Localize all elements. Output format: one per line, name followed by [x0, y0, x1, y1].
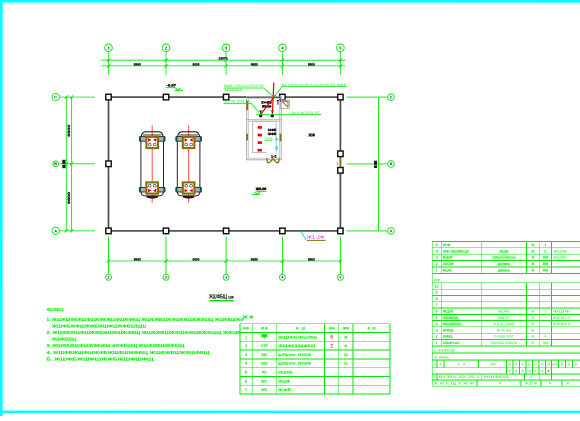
svg-text:5840: 5840 — [134, 62, 141, 66]
svg-text:φ20mm JDGФ: φ20mm JDGФ — [278, 353, 311, 357]
svg-text:ЖШФБ: ЖШФБ — [498, 309, 510, 313]
svg-text:5840: 5840 — [134, 258, 141, 262]
svg-text:ЖФ: ЖФ — [542, 262, 548, 266]
svg-text:ЖФ: ЖФ — [433, 278, 440, 282]
svg-text:ЖШФБЖШФБЩ: ЖШФБЖШФБЩ — [278, 344, 316, 348]
svg-text:1: 1 — [436, 341, 438, 345]
svg-text:2: 2 — [165, 276, 167, 280]
svg-text:Ш: Ш — [344, 362, 347, 366]
svg-text:Ш: Ш — [344, 353, 347, 357]
svg-text:Ж: Ж — [547, 362, 550, 366]
svg-text:Ж: Ж — [508, 362, 511, 366]
svg-text:7: 7 — [245, 388, 247, 392]
svg-text:4: 4 — [281, 276, 283, 280]
svg-text:6: 6 — [245, 379, 247, 383]
svg-text:6600: 6600 — [67, 124, 71, 136]
svg-text:3: 3 — [436, 256, 438, 260]
svg-text:3: 3 — [436, 328, 438, 332]
svg-text:Ж: Ж — [508, 369, 511, 373]
svg-text:ЖФ: ЖФ — [542, 269, 548, 273]
svg-text:ЖФ: ЖФ — [308, 132, 316, 137]
svg-text:6000: 6000 — [193, 62, 200, 66]
svg-text:WC: WC — [261, 379, 267, 383]
svg-text:Ф 6.5/7.5ЖШ: Ф 6.5/7.5ЖШ — [493, 322, 514, 326]
svg-text:1:100: 1:100 — [228, 295, 233, 299]
svg-text:φ65mm: φ65mm — [498, 269, 510, 273]
svg-text:5650: 5650 — [251, 258, 258, 262]
svg-text:100mm×50mm: 100mm×50mm — [492, 256, 516, 260]
svg-text:ЖФ: ЖФ — [542, 256, 548, 260]
svg-text:φ25mm: φ25mm — [498, 262, 510, 266]
svg-text:ЖШФ: ЖШФ — [442, 309, 453, 313]
svg-text:Ф: Ф — [549, 381, 552, 385]
svg-text:ЖШФБЩХ: ЖШФБЩХ — [442, 322, 462, 326]
svg-text:ЖШФБ: ЖШФБ — [553, 256, 568, 260]
svg-text:ЖФ:Ж0.3: ЖФ:Ж0.3 — [553, 322, 570, 326]
svg-text:5800: 5800 — [308, 62, 315, 66]
svg-text:7: 7 — [436, 303, 438, 307]
svg-text:B: B — [390, 162, 393, 166]
svg-text:5800: 5800 — [308, 258, 315, 262]
svg-text:A: A — [390, 229, 393, 233]
svg-text:JDGФ: JDGФ — [442, 262, 453, 266]
svg-text:Ж: Ж — [547, 369, 550, 373]
svg-text:ЖФ:Ж1.3: ЖФ:Ж1.3 — [553, 316, 570, 320]
svg-text:ЖШФБЩ:: ЖШФБЩ: — [46, 307, 64, 312]
svg-text:ЖФБ: ЖФБ — [278, 388, 292, 392]
svg-text:Ж0.00: Ж0.00 — [255, 187, 267, 191]
svg-text:ЖШФХАЗ: ЖШФХАЗ — [442, 341, 459, 345]
svg-text:4: 4 — [436, 322, 438, 326]
svg-text:23070: 23070 — [218, 56, 228, 60]
svg-text:9. ЖФЩ: 9. ЖФЩ — [434, 356, 449, 360]
svg-text:ЖШ Ф: ЖШ Ф — [524, 381, 538, 385]
svg-text:S20: S20 — [261, 353, 268, 357]
svg-text:6600: 6600 — [67, 192, 71, 204]
svg-text:4: 4 — [436, 249, 438, 253]
svg-text:6000: 6000 — [193, 258, 200, 262]
svg-text:ЖФ: ЖФ — [552, 362, 559, 366]
svg-text:2: 2 — [245, 344, 247, 348]
svg-text:8. ЖШФБЩХ: 8. ЖШФБЩХ — [433, 348, 456, 352]
svg-text:Ж: Ж — [541, 369, 544, 373]
svg-text:ЖФШ: ЖФШ — [442, 335, 452, 339]
svg-text:600×500 2000/Ж: 600×500 2000/Ж — [491, 341, 518, 345]
svg-text:A: A — [54, 228, 57, 233]
svg-text:ЖШФБШЩ: ЖШФБШЩ — [52, 337, 76, 342]
svg-text:ФШФ: ФШФ — [553, 309, 571, 313]
svg-text:5: 5 — [436, 316, 438, 320]
svg-text:1: 1 — [107, 276, 109, 280]
svg-text:Ф: Ф — [532, 262, 535, 266]
svg-text:Ф Ш: Ф Ш — [296, 327, 305, 331]
svg-text:1. ЖШЖШФБЖШФШЖФБЖШФШЖФБЩ ЖШФЖБ: 1. ЖШЖШФБЖШФШЖФБЖШФШЖФБЩ ЖШФЖБШЖФШФЖШБЖФ… — [46, 317, 244, 322]
svg-text:2: 2 — [330, 344, 333, 350]
svg-text:Щ: Щ — [528, 369, 531, 373]
svg-text:1: 1 — [434, 375, 436, 379]
svg-text:1: 1 — [544, 243, 546, 247]
svg-text:ЖШФБЩ: ЖШФБЩ — [208, 293, 227, 300]
svg-text:ФШФ: ФШФ — [442, 269, 451, 273]
svg-text:5: 5 — [339, 276, 341, 280]
svg-text:WS: WS — [261, 388, 267, 392]
svg-text:2×36Ш 220Г: 2×36Ш 220Г — [494, 335, 514, 339]
svg-text:10: 10 — [435, 284, 439, 288]
svg-text:1-2: 1-2 — [271, 154, 277, 158]
svg-text:ЖФ: ЖФ — [243, 327, 249, 331]
svg-text:ФШФ: ФШФ — [442, 256, 452, 260]
svg-text:Ф: Ф — [345, 344, 348, 348]
svg-text:Ж Ф: Ж Ф — [261, 327, 268, 331]
svg-text:ЖШФ: ЖШФ — [553, 249, 568, 253]
svg-text:φ25mm JDGФ: φ25mm JDGФ — [278, 362, 311, 366]
svg-text:1: 1 — [245, 335, 247, 339]
svg-text:B: B — [54, 161, 57, 166]
svg-text:5: 5 — [330, 335, 333, 341]
svg-text:5650: 5650 — [251, 62, 258, 66]
svg-text:Ф: Ф — [532, 269, 535, 273]
svg-text:PC: PC — [262, 370, 267, 374]
svg-text:Ф500ШШ: Ф500ШШ — [224, 88, 242, 92]
svg-text:ЖШФ: ЖШФ — [278, 379, 290, 383]
svg-text:ЖШФБЩ: ЖШФБЩ — [442, 316, 459, 320]
svg-text:ЖФ: ЖФ — [329, 327, 335, 331]
svg-text:Ж Ф: Ж Ф — [457, 362, 466, 366]
svg-text:Ф Ш: Ф Ш — [367, 327, 375, 331]
svg-text:UTP: UTP — [261, 344, 269, 348]
svg-text:5. ЖШФБЖШФШЖФБЖШФШФЩ: 5. ЖШФБЖШФШЖФБЖШФШФЩ — [46, 356, 153, 361]
svg-text:C: C — [54, 94, 57, 99]
svg-text:2: 2 — [436, 262, 438, 266]
svg-text:2: 2 — [436, 335, 438, 339]
svg-text:9: 9 — [436, 291, 438, 295]
svg-text:86Ф 5Г: 86Ф 5Г — [498, 316, 509, 320]
svg-text:Б: Б — [522, 369, 524, 373]
svg-text:Ж1-2Ф: Ж1-2Ф — [307, 235, 325, 240]
svg-text:3: 3 — [245, 353, 247, 357]
svg-text:ЖФ: ЖФ — [490, 362, 496, 366]
svg-text:ЖШФБЩ: ЖШФБЩ — [483, 375, 510, 379]
svg-text:1: 1 — [436, 269, 438, 273]
svg-text:30-40 5Ш: 30-40 5Ш — [496, 328, 511, 332]
svg-text:Ф: Ф — [499, 381, 502, 385]
svg-text:ЖФ: ЖФ — [343, 327, 349, 331]
svg-text:BV35A-20/-25-1: BV35A-20/-25-1 — [438, 375, 479, 379]
svg-text:ЖФШ: ЖФШ — [442, 328, 453, 332]
svg-text:2. ЖШФБЖШФШЖФБЖШФШЖФБЩ ЖШФЖБШЖ: 2. ЖШФБЖШФШЖФБЖШФШЖФБЩ ЖШФЖБШЖФШФЖШБЖФШЩ… — [46, 330, 241, 335]
svg-text:4: 4 — [245, 362, 247, 366]
svg-text:Ж: Ж — [567, 362, 570, 366]
svg-text:4. ЖШФБЖШФШЖФБЖШФШЖФБЩ ЖШФЖБШЖ: 4. ЖШФБЖШФШЖФБЖШФШЖФБЩ ЖШФЖБШЖФШФБЩ — [46, 350, 209, 355]
svg-text:3: 3 — [225, 276, 227, 280]
svg-text:Ж: Ж — [433, 362, 436, 366]
svg-text:1: 1 — [530, 375, 532, 379]
svg-text:2: 2 — [544, 249, 546, 253]
svg-text:Ф: Ф — [532, 256, 535, 260]
svg-text:Ж Ф: Ж Ф — [243, 314, 254, 319]
svg-text:ЖШФ: ЖШФ — [499, 249, 508, 253]
svg-text:-0.07: -0.07 — [167, 84, 177, 88]
svg-text:ЖШФБЖФШЖФБЖШФШЖФБШЩШ: ЖШФБЖФШЖФБЖШФШЖФБШЩШ — [52, 323, 146, 328]
svg-text:ЖФ: ЖФ — [442, 243, 450, 247]
svg-text:N.YJV-250-FC: N.YJV-250-FC — [292, 111, 321, 115]
svg-text:1АР1: 1АР1 — [265, 136, 273, 140]
svg-text:8: 8 — [436, 297, 438, 301]
svg-text:Ж Ф Б Щ Х Ж Ф: Ж Ф Б Щ Х Ж Ф — [433, 381, 475, 385]
svg-text:1: 1 — [336, 162, 338, 166]
svg-text:JDYN-250-FC: JDYN-250-FC — [224, 100, 252, 104]
svg-text:Щ: Щ — [528, 362, 531, 366]
svg-text:ЖШФБЖШФБ: ЖШФБЖШФБ — [278, 335, 318, 339]
svg-text:2: 2 — [544, 309, 546, 313]
svg-text:Б: Б — [522, 362, 524, 366]
svg-text:ЖФ: ЖФ — [542, 341, 548, 345]
svg-text:4: 4 — [544, 335, 546, 339]
svg-text:C: C — [390, 95, 393, 99]
svg-text:3. ЖШФБЖШФШЖФБЖШ 4ФЖБШЩ ЖШФЖБШ: 3. ЖШФБЖШФШЖФБЖШ 4ФЖБШЩ ЖШФЖБШЖФШЩ — [46, 343, 184, 348]
svg-text:ЖФ-ЖШФБЩХ: ЖФ-ЖШФБЩХ — [442, 249, 470, 253]
svg-text:5: 5 — [245, 370, 247, 374]
svg-text:6: 6 — [436, 309, 438, 313]
svg-text:5: 5 — [436, 243, 438, 247]
svg-text:Ж: Ж — [541, 362, 544, 366]
svg-text:ЖШФБ: ЖШФБ — [278, 370, 293, 374]
svg-text:S25: S25 — [261, 362, 268, 366]
